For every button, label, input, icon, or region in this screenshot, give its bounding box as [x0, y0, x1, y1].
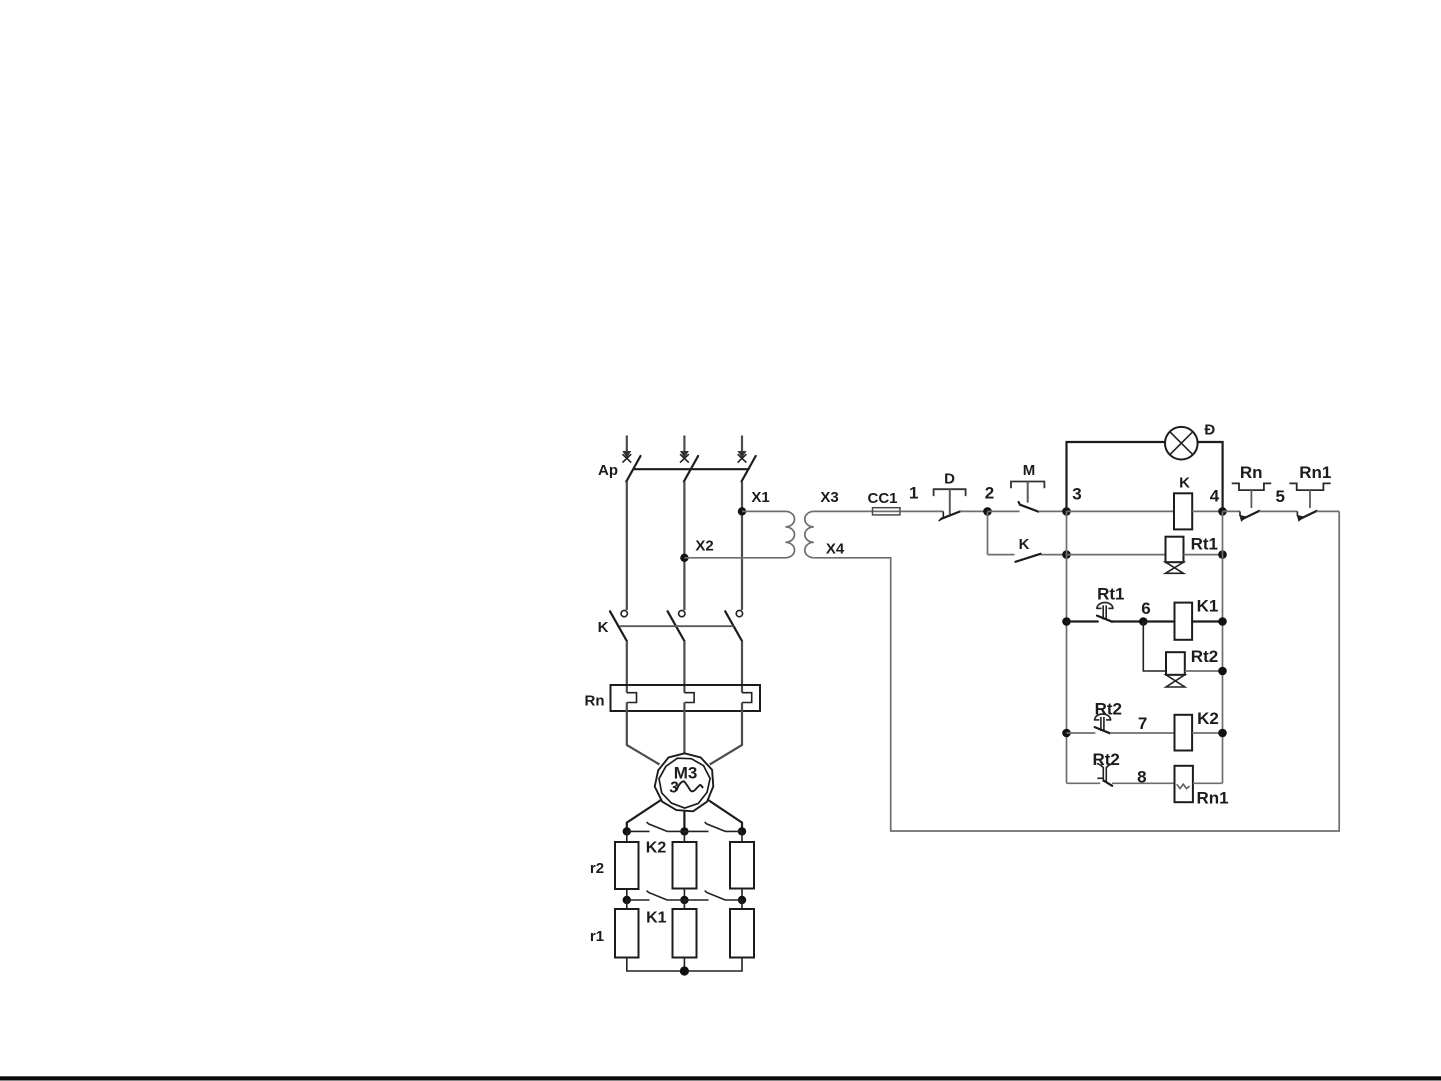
lamp branch wire left: [1067, 442, 1166, 511]
node X2: [680, 538, 713, 563]
svg-text:K: K: [598, 619, 609, 636]
label K2 rotor contact: [646, 840, 667, 857]
label Rn contact: [1240, 463, 1263, 482]
time relay coil Rt1: [1166, 537, 1184, 574]
svg-text:K1: K1: [1197, 597, 1219, 616]
svg-text:Rn: Rn: [1240, 463, 1263, 482]
wire Rn1 to right corner: [1317, 510, 1340, 512]
wire node 4 to contact Rn: [1223, 510, 1241, 512]
svg-text:Rt2: Rt2: [1092, 750, 1119, 769]
contact K1 row wires: [627, 899, 742, 901]
motor label M3: [674, 764, 698, 783]
svg-text:Rn1: Rn1: [1299, 463, 1331, 482]
wire node 6 to coil K1: [1143, 620, 1174, 622]
bottom page rule: [0, 1076, 1441, 1080]
node left rail row2: [1062, 550, 1071, 559]
wire X2 to transformer primary: [684, 557, 785, 559]
label K coil: [1179, 475, 1190, 492]
svg-text:Rt1: Rt1: [1191, 535, 1218, 554]
wire D to node 2: [960, 510, 988, 512]
svg-text:D: D: [944, 471, 955, 488]
wire X1 to transformer primary: [742, 510, 786, 512]
wire pole 1 contactor to overload: [626, 641, 628, 693]
wire pole 2 contactor to overload: [683, 641, 685, 693]
svg-text:r2: r2: [590, 860, 604, 877]
wire node 3 to coil K: [1067, 510, 1175, 512]
node rotor phase B top: [680, 827, 688, 835]
overload Rn heater loop pole 3: [742, 693, 752, 703]
resistor r1 element 1: [615, 900, 639, 958]
label K auxiliary: [1019, 536, 1030, 553]
label Rt2 coil: [1191, 647, 1218, 666]
resistor r2 element 1: [615, 831, 639, 889]
contactor coil K1: [1175, 603, 1193, 640]
wire row4 left: [1067, 732, 1096, 734]
wire node 2 drop to contact K: [987, 511, 989, 554]
contact K2 row wires: [627, 830, 742, 832]
node right rail Rt2: [1218, 667, 1227, 676]
left rail: [1066, 511, 1068, 783]
transformer primary winding X1-X2: [786, 511, 795, 557]
rotor lead middle: [683, 812, 685, 831]
breaker Ap blade pole 3: [742, 456, 756, 482]
signal lamp D circle: [1165, 427, 1198, 460]
node rotor star point: [680, 966, 689, 975]
node 1 label: [909, 484, 918, 503]
breaker Ap linkage bar: [634, 468, 749, 470]
wire Rt2 contact to coil K2: [1110, 732, 1175, 734]
contact K2 blade left: [647, 822, 668, 832]
node left rail row4: [1062, 729, 1071, 738]
svg-text:Rt1: Rt1: [1097, 585, 1124, 604]
timed contact Rt2 normally open: [1094, 714, 1111, 733]
node 6: [1139, 599, 1151, 626]
wire pole 1 breaker to contactor: [626, 482, 628, 611]
wire fuse to button D: [900, 510, 943, 512]
timed contact Rt1 normally open: [1096, 603, 1113, 622]
contactor K blade pole 1: [610, 611, 627, 641]
svg-text:1: 1: [909, 484, 918, 503]
lamp branch wire right: [1198, 442, 1223, 511]
wire node 2 to button M: [988, 510, 1020, 512]
thermal contact Rn1 normally closed: [1289, 483, 1330, 522]
svg-text:CC1: CC1: [867, 490, 897, 507]
label K1 coil: [1197, 597, 1219, 616]
svg-text:Rt2: Rt2: [1191, 647, 1218, 666]
svg-text:X1: X1: [751, 489, 769, 506]
label Rt1 coil: [1191, 535, 1218, 554]
wire pole 2 breaker to contactor: [683, 482, 685, 611]
breaker Ap terminal x-mark pole 3: [738, 454, 747, 462]
contact K1 blade right: [705, 891, 726, 901]
wire Rn1 heater to right rail: [1193, 782, 1223, 784]
wire pole 3 breaker to contactor: [741, 482, 743, 611]
breaker Ap terminal x-mark pole 1: [622, 454, 631, 462]
contactor K fixed contact pole 2: [679, 610, 685, 616]
label r2: [590, 860, 604, 877]
svg-text:Rn1: Rn1: [1196, 789, 1228, 808]
svg-text:K1: K1: [646, 910, 667, 927]
wire pole 3 contactor to overload: [741, 641, 743, 693]
node rotor phase A mid: [623, 896, 631, 904]
label K1 rotor contact: [646, 910, 667, 927]
label Rn overload: [585, 693, 605, 710]
contactor coil K: [1174, 493, 1192, 529]
label Rn1 contact: [1299, 463, 1331, 482]
wire row3 left: [1067, 620, 1098, 622]
label Rt1 contact: [1097, 585, 1124, 604]
svg-text:Ap: Ap: [598, 462, 618, 479]
node 4: [1210, 487, 1227, 516]
transformer secondary winding X3-X4: [805, 511, 814, 557]
breaker Ap blade pole 1: [626, 456, 640, 482]
wire row5 left: [1067, 782, 1101, 784]
label Rt2 contact row4: [1095, 700, 1122, 719]
auxiliary contact K wires: [988, 554, 1067, 556]
node rotor phase C mid: [738, 896, 746, 904]
wire Rt1 contact to node 6: [1112, 620, 1143, 622]
contactor coil K2: [1175, 715, 1193, 751]
node 7 label: [1138, 714, 1147, 733]
node 2: [983, 484, 994, 516]
wire coil K1 to right rail: [1192, 620, 1222, 622]
right rail: [1222, 511, 1224, 783]
wire coil K2 to right rail: [1192, 732, 1222, 734]
svg-text:3: 3: [1072, 485, 1081, 504]
supply arrow phase L3: [738, 436, 747, 459]
rotor lead right: [708, 800, 742, 831]
wire X4 return: [814, 511, 1339, 831]
thermal element Rn1: [1175, 766, 1193, 802]
time relay coil Rt2: [1166, 652, 1185, 687]
supply arrow phase L2: [680, 436, 689, 459]
node 5 label: [1275, 487, 1284, 506]
svg-text:Rn: Rn: [585, 693, 605, 710]
motor waveform symbol: [677, 781, 703, 791]
auxiliary contact K blade: [1016, 554, 1041, 562]
label r1: [590, 928, 604, 945]
node right rail row3: [1218, 617, 1227, 626]
supply arrow phase L1: [622, 436, 631, 459]
resistor r1 element 2: [673, 900, 697, 958]
node X1: [738, 489, 770, 516]
wire r2 to K1 row: [627, 889, 742, 901]
contactor K blade pole 3: [725, 611, 742, 641]
overload Rn heater loop pole 1: [627, 693, 637, 703]
node rotor phase A top: [623, 827, 631, 835]
node right rail row2: [1218, 550, 1227, 559]
label K2 coil: [1197, 709, 1219, 728]
thermal contact Rn normally closed: [1232, 483, 1272, 522]
svg-text:2: 2: [985, 484, 994, 503]
svg-text:K2: K2: [646, 840, 667, 857]
node 3: [1062, 485, 1082, 516]
overload Rn heater loop pole 2: [684, 693, 694, 703]
resistor r1 element 3: [730, 900, 754, 958]
svg-text:K: K: [1019, 536, 1030, 553]
svg-text:X4: X4: [826, 541, 845, 558]
wire pole 2 overload to motor: [683, 703, 685, 754]
wire Rn to Rn1: [1259, 510, 1297, 512]
wire pole 3 overload to motor: [710, 703, 742, 765]
svg-text:Đ: Đ: [1204, 422, 1215, 439]
svg-text:X2: X2: [695, 538, 713, 555]
overload relay Rn box: [611, 685, 761, 711]
contactor K fixed contact pole 1: [621, 610, 627, 616]
svg-text:M: M: [1023, 462, 1036, 479]
wire M to node 3: [1039, 510, 1067, 512]
node left rail row3: [1062, 617, 1071, 626]
timed contact Rt2 normally closed: [1097, 763, 1113, 785]
wire node 6 drop: [1143, 622, 1166, 672]
fuse CC1: [867, 490, 900, 515]
node rotor phase B mid: [680, 896, 688, 904]
label lamp Đ: [1204, 422, 1215, 439]
pushbutton M normally open: [1011, 482, 1044, 512]
label K contactor: [598, 619, 609, 636]
resistor r2 element 3: [730, 831, 754, 888]
label X3: [820, 489, 838, 506]
rotor star point bus: [627, 958, 742, 972]
wire Rt2 coil to right rail: [1185, 670, 1223, 672]
svg-text:5: 5: [1275, 487, 1284, 506]
rotor lead left: [627, 800, 661, 831]
svg-text:Rt2: Rt2: [1095, 700, 1122, 719]
label Rt2 contact row5: [1092, 750, 1119, 769]
node 8 label: [1137, 768, 1146, 787]
svg-text:4: 4: [1210, 487, 1220, 506]
node rotor phase C top: [738, 827, 746, 835]
motor label 3 phase: [669, 780, 678, 797]
label X4: [826, 541, 845, 558]
svg-text:X3: X3: [820, 489, 838, 506]
contactor K fixed contact pole 3: [736, 610, 742, 616]
svg-text:6: 6: [1141, 599, 1150, 618]
svg-text:K: K: [1179, 475, 1190, 492]
wire coil K to node 4: [1192, 510, 1222, 512]
label M: [1023, 462, 1036, 479]
wire Rt2 NC contact to Rn1 heater: [1112, 782, 1175, 784]
contactor K blade pole 2: [668, 611, 685, 641]
svg-text:K2: K2: [1197, 709, 1219, 728]
resistor r2 element 2: [673, 831, 697, 888]
contactor K linkage bar: [620, 625, 734, 627]
node right rail row4: [1218, 729, 1227, 738]
motor M3 stator circle: [655, 753, 714, 811]
wire X3 to fuse: [814, 510, 873, 512]
pushbutton D normally closed: [934, 489, 966, 521]
breaker Ap terminal x-mark pole 2: [680, 454, 689, 462]
contact K2 blade right: [705, 822, 726, 832]
svg-text:r1: r1: [590, 928, 604, 945]
label Rn1 heater: [1196, 789, 1228, 808]
svg-text:7: 7: [1138, 714, 1147, 733]
contact K1 blade left: [647, 891, 668, 901]
label Ap: [598, 462, 618, 479]
wire row2 to coil Rt1: [1067, 554, 1166, 556]
wire Rt1 to right rail: [1184, 554, 1223, 556]
wire pole 1 overload to motor: [627, 703, 660, 765]
label D: [944, 471, 955, 488]
breaker Ap blade pole 2: [684, 456, 698, 482]
